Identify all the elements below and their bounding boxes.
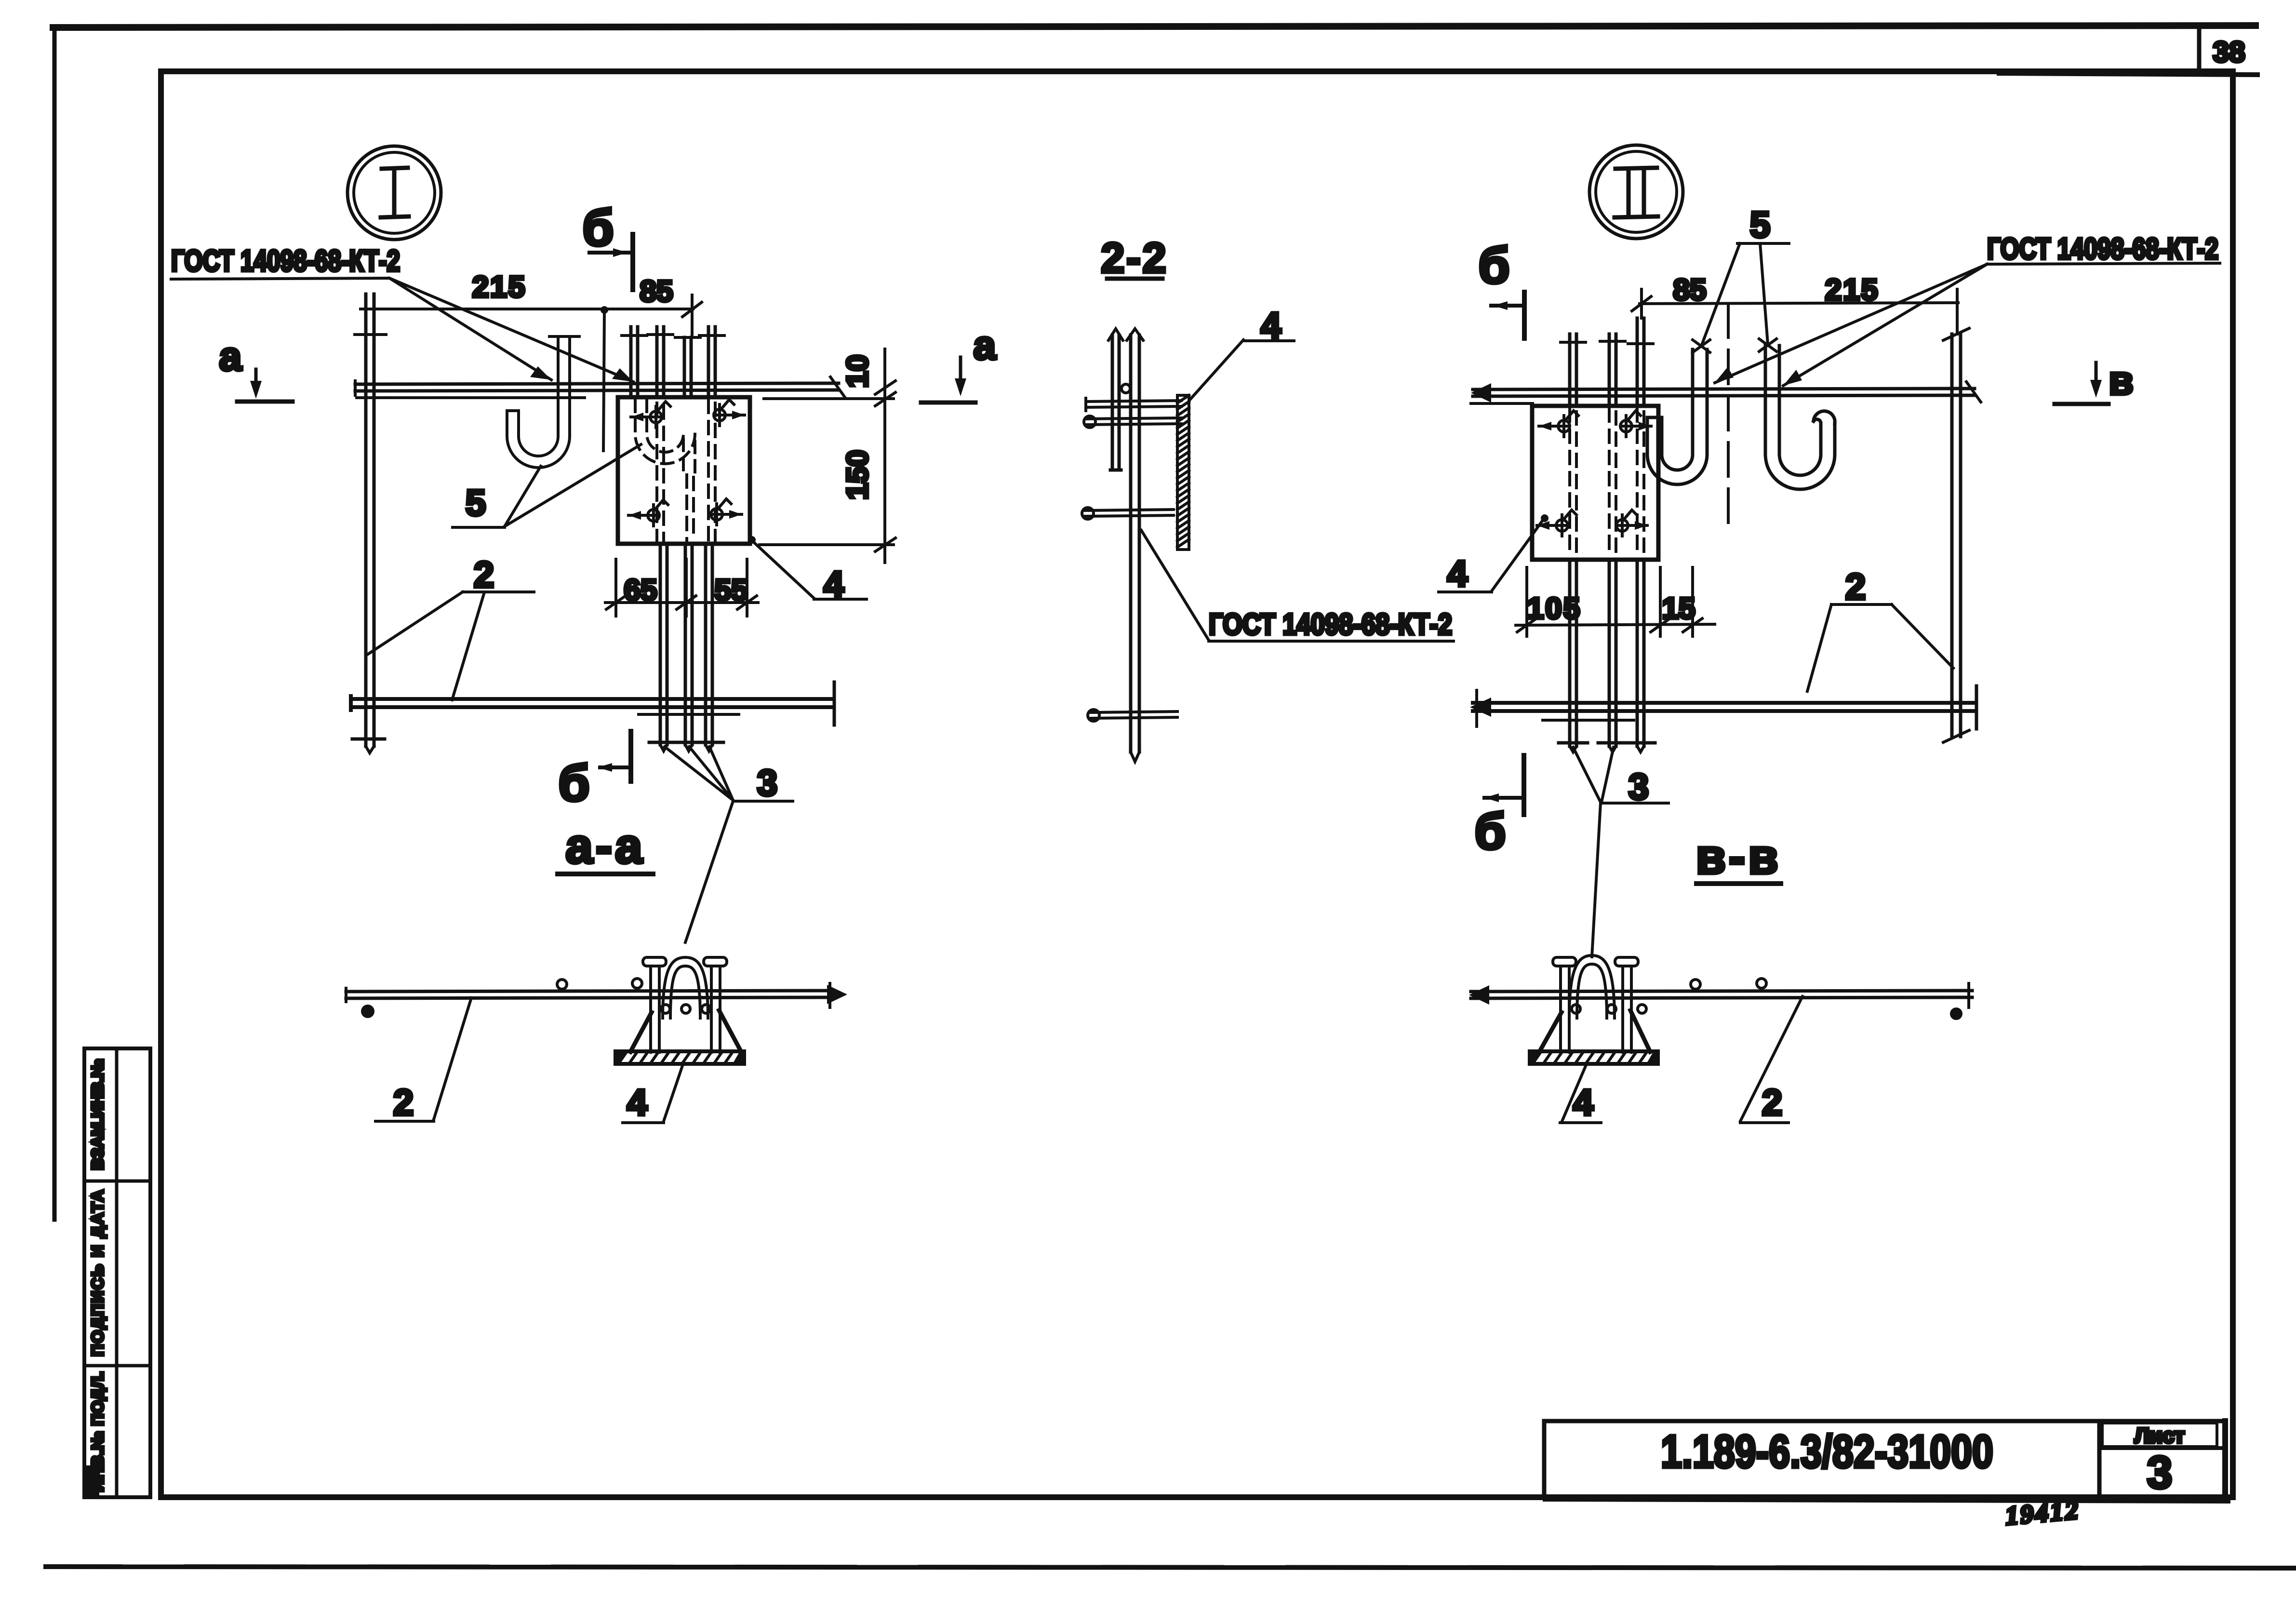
arch loop <box>1569 955 1615 1018</box>
sheet left edge <box>53 29 57 1220</box>
svg-text:19412: 19412 <box>2004 1495 2082 1530</box>
top dimension 85 / 215 <box>1640 303 1958 304</box>
wires below plate <box>660 544 667 745</box>
cross wire dots <box>1691 980 1700 989</box>
svg-text:2: 2 <box>1845 566 1866 607</box>
plate edge view hatched <box>1177 395 1189 550</box>
svg-text:85: 85 <box>1673 273 1707 307</box>
svg-text:ПОДПИСЬ И ДАТА: ПОДПИСЬ И ДАТА <box>89 1190 107 1356</box>
svg-text:38: 38 <box>2213 36 2245 68</box>
page number box 38 <box>2197 29 2202 72</box>
svg-text:Лист: Лист <box>2135 1424 2185 1448</box>
plate item 4 <box>1532 406 1658 560</box>
weld symbols on plate <box>631 402 670 428</box>
stand posts <box>651 966 659 1052</box>
cross wire dots <box>362 1006 373 1017</box>
base plate hatched <box>1530 1051 1658 1064</box>
svg-text:55: 55 <box>715 574 748 607</box>
sheet bottom edge <box>46 1567 2294 1568</box>
hidden hook dashed on plate <box>635 400 695 472</box>
loop wire edge-on <box>1110 335 1121 470</box>
svg-text:15: 15 <box>1662 592 1695 625</box>
svg-text:2: 2 <box>1762 1082 1782 1123</box>
svg-text:а: а <box>974 322 997 368</box>
svg-text:2: 2 <box>393 1082 414 1123</box>
hidden wires dashed on plate <box>657 400 715 541</box>
stand posts <box>1561 966 1569 1052</box>
lower horizontal bar <box>351 697 834 701</box>
bar in section <box>346 991 831 992</box>
svg-text:105: 105 <box>1527 592 1581 625</box>
svg-text:1.189-6.3/82-31000: 1.189-6.3/82-31000 <box>1661 1426 1993 1477</box>
svg-text:5: 5 <box>1750 204 1770 245</box>
wires above plate <box>1570 334 1576 406</box>
horizontal bars <box>1086 398 1181 411</box>
svg-text:3: 3 <box>2147 1447 2173 1498</box>
anchor hook item 5 (solid) <box>507 337 570 468</box>
wires below plate <box>1570 560 1576 746</box>
arch loop <box>663 957 708 1018</box>
svg-text:а: а <box>219 334 242 379</box>
svg-text:ГОСТ 14098-68-КТ-2: ГОСТ 14098-68-КТ-2 <box>1209 608 1452 641</box>
dim 10 & 150 right <box>764 397 894 400</box>
svg-text:215: 215 <box>1825 273 1879 307</box>
weld symbols on plate <box>1539 411 1578 437</box>
svg-text:10: 10 <box>841 355 874 388</box>
braces <box>1539 1012 1562 1052</box>
left stamp strip <box>84 1048 150 1497</box>
svg-text:2: 2 <box>474 554 494 595</box>
base plate hatched <box>615 1051 744 1064</box>
svg-text:а-а: а-а <box>565 819 645 873</box>
hook 1 (solid) <box>1647 349 1707 484</box>
right vertical wire <box>1952 334 1961 737</box>
drawing frame <box>161 71 2233 1497</box>
svg-text:б: б <box>582 200 614 256</box>
svg-text:5: 5 <box>466 483 486 524</box>
node circle II <box>1589 145 1683 239</box>
top dimension line 215 / 85 <box>360 308 693 310</box>
lower horizontal bar <box>1473 701 1976 705</box>
svg-text:65: 65 <box>624 574 657 607</box>
title block <box>1544 1419 2223 1423</box>
main vertical wire <box>1131 335 1139 752</box>
node circle I <box>347 146 441 240</box>
svg-text:150: 150 <box>841 450 874 499</box>
svg-text:2-2: 2-2 <box>1101 234 1168 282</box>
dim 65 / 55 <box>616 559 747 616</box>
hidden wires dashed on plate <box>1570 409 1644 557</box>
smudge bottom-left of stamp <box>86 1465 99 1497</box>
svg-text:в-в: в-в <box>1695 829 1781 884</box>
svg-text:4: 4 <box>627 1082 647 1123</box>
sheet top edge <box>53 26 2256 27</box>
hook 2 (solid) <box>1765 346 1835 489</box>
svg-text:б: б <box>1474 803 1506 860</box>
top horizontal bar <box>355 383 839 384</box>
weld dot <box>1121 384 1130 393</box>
braces <box>630 1012 652 1052</box>
svg-text:85: 85 <box>640 275 673 308</box>
svg-text:ГОСТ 14098-68-КТ-2: ГОСТ 14098-68-КТ-2 <box>1987 232 2218 266</box>
svg-text:4: 4 <box>1447 553 1468 594</box>
dim 105 / 15 <box>1527 567 1693 636</box>
svg-text:в: в <box>2109 358 2134 403</box>
svg-text:б: б <box>1478 237 1509 294</box>
svg-text:б: б <box>558 755 589 812</box>
svg-text:ГОСТ 14098-68-КТ-2: ГОСТ 14098-68-КТ-2 <box>171 244 400 278</box>
svg-text:215: 215 <box>472 270 526 304</box>
svg-text:3: 3 <box>1629 766 1649 807</box>
left vertical wire <box>366 294 374 746</box>
svg-text:3: 3 <box>757 763 777 804</box>
plate item 4 <box>618 397 750 544</box>
bar in section <box>1471 991 1972 992</box>
svg-text:ВЗАМ.ИНВ.№: ВЗАМ.ИНВ.№ <box>89 1059 107 1170</box>
top horizontal bar <box>1473 389 1975 389</box>
vertical wires above plate <box>631 327 638 397</box>
